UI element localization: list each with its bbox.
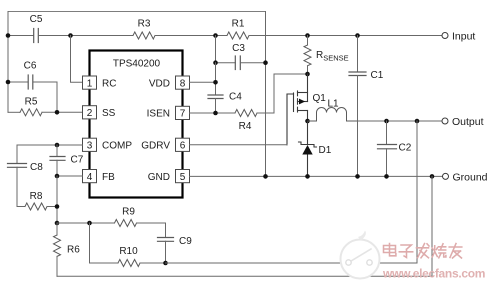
node dot ground / D1: [305, 174, 310, 179]
wire top rail from left rail to ground drop: [8, 11, 266, 13]
svg-text:ISEN: ISEN: [147, 109, 170, 120]
node dot divider drop top: [415, 119, 420, 124]
op-amp U1 TPS40200 IC body: [90, 51, 183, 198]
pin 5 GND: [148, 170, 190, 183]
wire left rail vertical x=8: [7, 12, 9, 113]
pin 7 ISEN: [147, 106, 190, 119]
wire FB row to pin 4: [57, 175, 83, 177]
watermark logo circle: [341, 231, 380, 279]
terminal Input: [442, 33, 448, 39]
pin 8 VDD: [149, 76, 190, 89]
svg-text:D1: D1: [319, 145, 332, 156]
node dot C3 column: [213, 60, 218, 65]
svg-text:C6: C6: [24, 61, 37, 72]
svg-text:R8: R8: [30, 191, 43, 202]
wire R5 to pin 2: [42, 111, 83, 113]
node dot left rail / C5: [6, 33, 11, 38]
resistor RSENSE: [304, 36, 311, 75]
node dot C3 / ground drop: [263, 60, 268, 65]
capacitor C4: [208, 95, 223, 99]
svg-text:C3: C3: [232, 43, 245, 54]
node dot C5 / RC drop: [68, 33, 73, 38]
wire VDD to ISEN vertical with C4: [215, 63, 217, 95]
resistor R6: [54, 223, 61, 276]
node dot ground / bottom rail riser: [430, 174, 435, 179]
svg-text:5: 5: [180, 172, 186, 183]
node dot R5 / C6 branch: [55, 110, 60, 115]
svg-text:L1: L1: [327, 99, 339, 110]
svg-text:COMP: COMP: [102, 141, 132, 152]
svg-text:C8: C8: [30, 162, 43, 173]
wire left rail corner to R5: [8, 111, 20, 113]
svg-text:C9: C9: [179, 236, 192, 247]
inductor L1: [308, 108, 358, 122]
svg-text:GDRV: GDRV: [141, 141, 170, 152]
pin 6 GDRV: [141, 138, 189, 151]
wire RC drop to pin 1: [71, 36, 83, 83]
svg-text:R6: R6: [67, 245, 80, 256]
node dot R3 / R1 / C3 column: [213, 33, 218, 38]
svg-text:C1: C1: [371, 70, 384, 81]
wire GDRV pin 6 to Q1 gate: [190, 144, 288, 146]
node dot switch node: [305, 119, 310, 124]
node dot RSENSE top: [305, 33, 310, 38]
wire R8 to FB column: [47, 206, 57, 208]
pin 3 COMP: [83, 138, 133, 151]
node dot ground / C3 drop: [263, 174, 268, 179]
svg-text:TPS40200: TPS40200: [113, 59, 161, 70]
wire C3 row: [216, 62, 236, 64]
wire bottom ground return rail: [57, 176, 432, 276]
svg-text:3: 3: [87, 141, 93, 152]
node dot R10 branch: [87, 221, 92, 226]
wire R10 branch drop: [90, 223, 119, 263]
wire VDD pin 8 to C4 column: [190, 81, 216, 83]
resistor R1: [227, 32, 249, 39]
svg-text:7: 7: [180, 109, 186, 120]
capacitor C9: [158, 238, 174, 242]
svg-text:SS: SS: [102, 108, 116, 119]
wire C3 column vertical top: [215, 36, 217, 63]
resistor R10: [118, 260, 140, 267]
wire C4 to ISEN node: [215, 99, 217, 114]
wire C3 to ground drop: [241, 62, 266, 64]
wire R9 to C9: [137, 223, 166, 238]
node dot divider tap: [55, 221, 60, 226]
node dot FB: [55, 174, 60, 179]
node dot VDD: [213, 80, 218, 85]
capacitor C3: [235, 56, 240, 70]
svg-text:R1: R1: [232, 19, 245, 30]
wire ground drop x=265.5: [265, 12, 267, 177]
wire output return rail to output: [166, 121, 418, 263]
node dot C1 top: [355, 33, 360, 38]
node dot ground / C2: [384, 174, 389, 179]
node dot R8 / FB column: [55, 204, 60, 209]
wire R4 to Q1 source node: [257, 74, 308, 113]
svg-text:Q1: Q1: [313, 93, 327, 104]
wire C5 to R3: [39, 35, 133, 37]
svg-text:R9: R9: [122, 207, 135, 218]
diode D1 triangle: [302, 145, 312, 155]
transistor Q1 arrow: [299, 99, 305, 105]
svg-text:FB: FB: [102, 172, 115, 183]
svg-text:R3: R3: [138, 19, 151, 30]
wire COMP row y=145: [17, 144, 83, 146]
svg-text:2: 2: [87, 108, 93, 119]
wire R1 to input terminal: [249, 35, 442, 37]
svg-text:6: 6: [180, 141, 186, 152]
capacitor C7: [50, 145, 65, 176]
svg-text:www.elecfans.com: www.elecfans.com: [382, 267, 485, 281]
watermark text elecfans chinese: [384, 244, 462, 259]
svg-text:RC: RC: [102, 78, 116, 89]
capacitor C6: [28, 75, 33, 89]
svg-text:R10: R10: [119, 246, 138, 257]
pin 4 FB: [83, 170, 116, 183]
wire divider row y=223: [57, 222, 115, 224]
wire output rail: [358, 120, 443, 122]
wire ground rail: [190, 175, 443, 177]
node dot COMP / C7: [55, 143, 60, 148]
pin 2 SS: [83, 106, 116, 119]
resistor R5: [20, 109, 42, 116]
capacitor C2: [378, 121, 397, 176]
terminal Ground: [443, 173, 449, 179]
wire FB column down: [56, 176, 58, 223]
terminal Output: [442, 118, 448, 124]
wire C9 to output return rail: [165, 241, 167, 263]
node dot ground / C1: [355, 174, 360, 179]
svg-text:8: 8: [180, 78, 186, 89]
node dot Q1 source node: [305, 72, 310, 77]
wire input row y=35.5: [8, 35, 33, 37]
transistor Q1 PMOS: [287, 74, 308, 145]
capacitor C5: [34, 29, 39, 43]
svg-text:R5: R5: [25, 97, 38, 108]
node dot ISEN: [213, 111, 218, 116]
svg-text:GND: GND: [148, 172, 170, 183]
node dot C2 top: [384, 119, 389, 124]
pin 1 RC: [83, 76, 117, 89]
resistor R9: [115, 220, 137, 227]
resistor R4: [235, 110, 257, 117]
svg-text:VDD: VDD: [149, 78, 170, 89]
wire C6 row y=82: [8, 81, 28, 83]
wire C6 to SS column: [33, 82, 57, 112]
svg-text:C4: C4: [229, 92, 242, 103]
wire ISEN pin 7 to R4: [190, 112, 236, 114]
svg-text:Input: Input: [452, 31, 475, 43]
resistor R3: [133, 32, 155, 39]
diode D1 schottky: [299, 121, 317, 176]
wire R10 to node: [140, 262, 166, 264]
node dot R10 / C9: [163, 261, 168, 266]
svg-text:Ground: Ground: [453, 171, 488, 183]
svg-text:C7: C7: [71, 155, 84, 166]
wire R3 to R1: [155, 35, 227, 37]
capacitor C8 branch: [8, 145, 27, 207]
svg-text:C5: C5: [30, 14, 43, 25]
node dot left rail / C6: [6, 80, 11, 85]
svg-text:1: 1: [87, 78, 93, 89]
capacitor C1: [349, 36, 366, 177]
svg-text:C2: C2: [399, 143, 412, 154]
svg-text:R4: R4: [239, 121, 252, 132]
resistor R8: [25, 203, 47, 210]
svg-text:Output: Output: [452, 116, 484, 128]
svg-text:4: 4: [87, 172, 93, 183]
